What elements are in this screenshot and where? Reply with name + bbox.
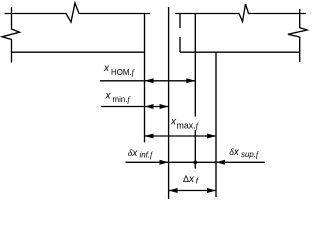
svg-text:sup.f: sup.f [241, 150, 260, 159]
svg-text:min.f: min.f [113, 95, 132, 104]
svg-text:max.f: max.f [177, 120, 200, 130]
svg-text:Δx: Δx [183, 174, 195, 185]
svg-text:δx: δx [229, 147, 240, 158]
svg-text:x: x [103, 63, 110, 74]
svg-text:δx: δx [128, 148, 139, 159]
svg-text:HOM.f: HOM.f [111, 68, 136, 77]
svg-text:inf.f: inf.f [140, 151, 155, 160]
svg-text:x: x [105, 90, 112, 101]
